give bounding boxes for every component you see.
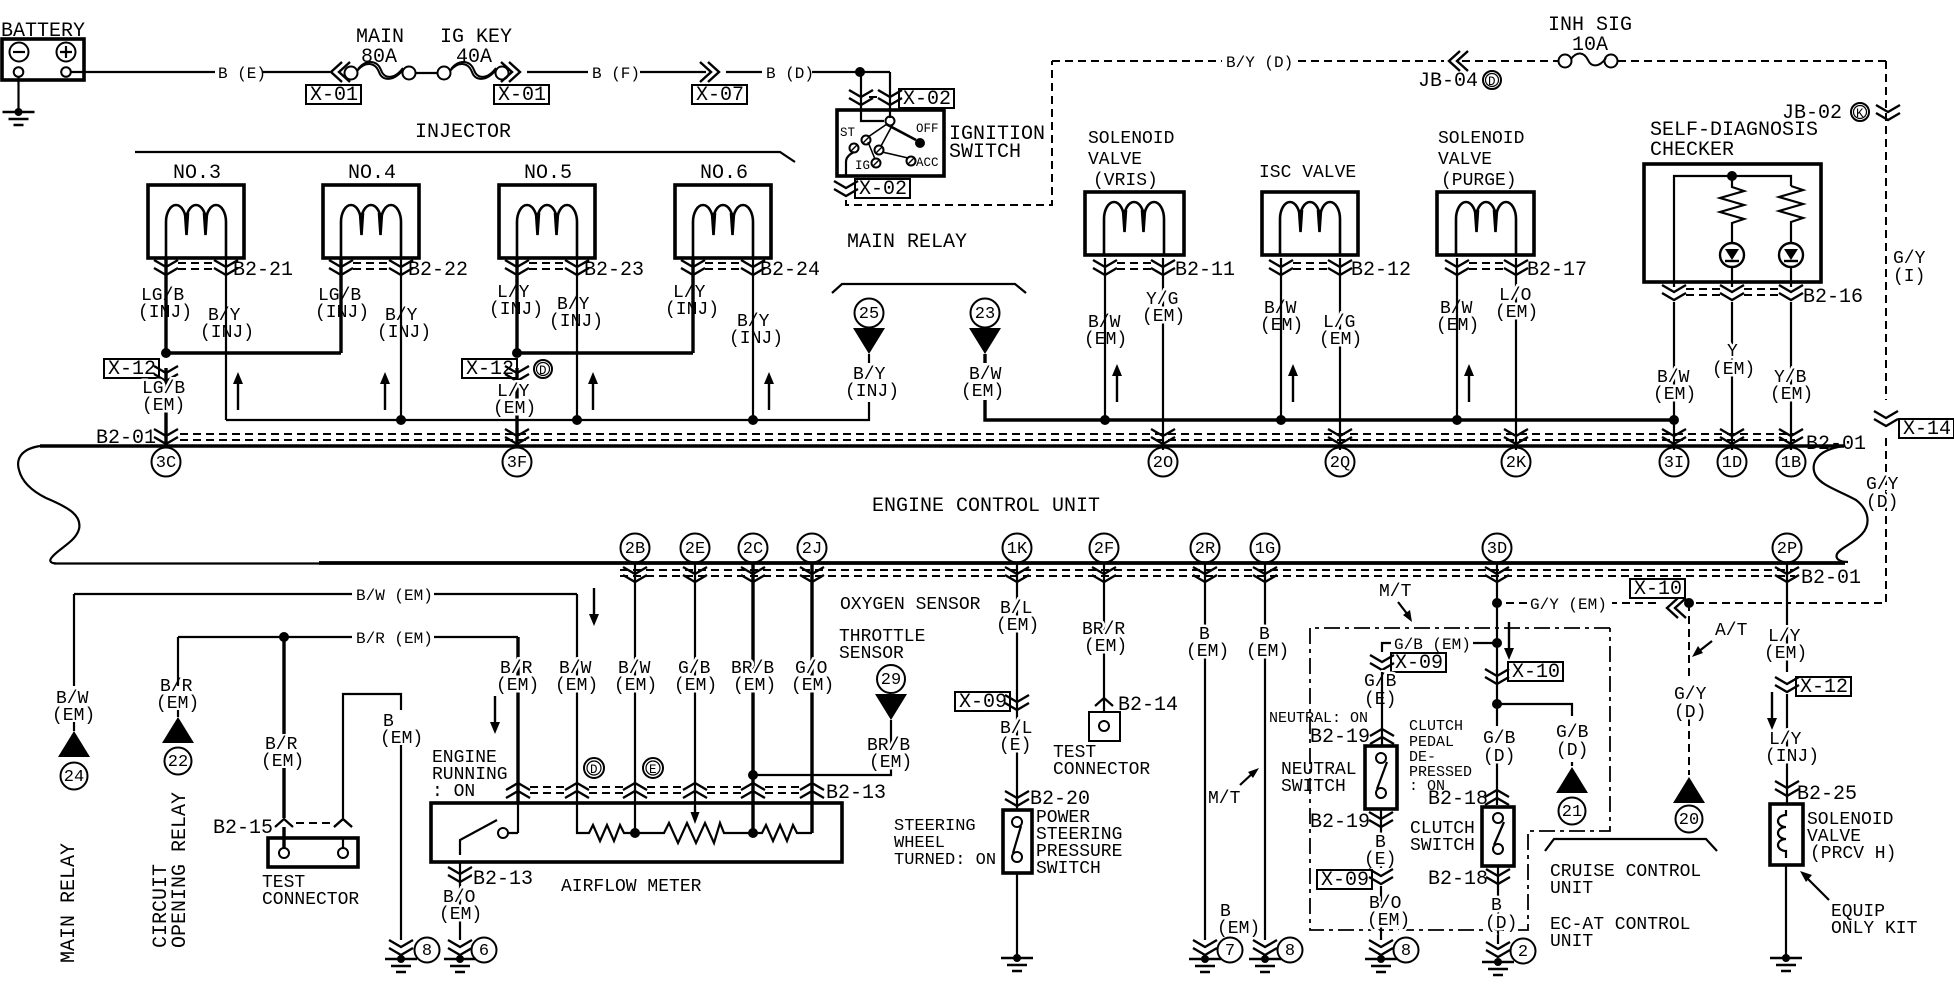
airflow resistor R1 [577,803,634,841]
airflow switch blade [460,820,497,855]
svg-text:SENSOR: SENSOR [839,644,904,664]
solenoid PRCV coil [1778,810,1786,858]
wire battery positive B(E) [71,71,330,73]
svg-text:X-12: X-12 [466,358,514,381]
svg-text:NO.4: NO.4 [348,162,396,185]
triangle to circuit opening relay 22 [162,717,194,743]
pin 3C [152,448,181,477]
ground 8 mid [1249,955,1281,972]
wire B(D) [726,71,890,73]
connector B2-11 chevrons [1093,260,1117,275]
test connector 2 box [1089,712,1120,741]
ISC coil [1280,202,1340,255]
svg-text:(EM): (EM) [1764,644,1807,664]
svg-text:B (D): B (D) [766,65,814,83]
svg-text:B2-24: B2-24 [760,259,820,282]
direction arrow down at B/R [490,696,500,734]
svg-text:22: 22 [168,753,188,772]
checker resistor R2 [1779,186,1803,243]
clutch switch blade [1494,822,1504,845]
svg-text:(EM): (EM) [1770,385,1813,405]
svg-text:(EM): (EM) [380,729,423,749]
pin 2C [739,534,768,563]
battery plus terminal symbol [57,43,76,62]
wire stub above triangle 24 [73,722,75,731]
svg-text:UNIT: UNIT [1550,879,1593,899]
connector B2-13 chevrons below [448,867,472,882]
svg-text:X-12: X-12 [1800,676,1848,699]
connector X-14 boxed label [1899,419,1954,438]
svg-text:2Q: 2Q [1330,454,1350,473]
svg-text:(EM): (EM) [996,616,1039,636]
svg-text:B (F): B (F) [592,65,640,83]
connector B2-23 chevrons [505,260,529,275]
wire LG/B NO.4 [166,258,341,353]
pin 23 circle [971,299,1000,328]
wire B/Y NO.4 [400,258,402,420]
svg-text:K: K [1856,107,1864,121]
ground chevrons B wire [389,940,413,955]
connector B2-14 chevron [1095,698,1113,706]
wire B/W checker to ECU 3I [1673,302,1675,450]
svg-text:Y: Y [1727,342,1738,362]
ground chevrons B/O [448,940,472,955]
triangle to main relay 24 [58,731,90,757]
svg-text:(INJ): (INJ) [315,303,369,323]
circled 24 [61,763,88,790]
connector X-12 chevrons mid [505,366,529,381]
connector X-09 chevrons lower [1369,869,1393,884]
svg-text:OFF: OFF [916,122,939,136]
svg-text:G/Y: G/Y [1893,249,1926,269]
wire dashed right edge down [1885,61,1887,400]
pin 23 triangle [969,328,1001,354]
wire B/Y NO.5 [576,258,578,420]
potentiometer wiper arrow [694,806,696,818]
svg-text:SWITCH: SWITCH [1281,777,1346,797]
svg-text:SWITCH: SWITCH [1410,836,1475,856]
svg-text:B/W (EM): B/W (EM) [356,587,433,605]
circled 29 oxygen sensor [877,665,905,693]
svg-text:G/B: G/B [1483,729,1516,749]
connector B2-17 chevrons [1445,260,1469,275]
wire B/O below airflow [459,862,461,940]
svg-text:X-09: X-09 [959,691,1007,714]
direction arrow up PURGE [1464,364,1474,402]
svg-text:: ON: : ON [432,782,475,802]
connector chevron on B wire [334,819,352,827]
svg-text:(EM): (EM) [791,676,834,696]
svg-text:B2-01: B2-01 [1801,567,1861,590]
wire pin25 to B/Y label [868,354,870,363]
injector NO.6 box [675,185,771,258]
connector X-09 chevrons PSP [1005,695,1029,710]
svg-text:(EM): (EM) [1260,316,1303,336]
connector X-01 chevron [331,62,350,82]
pin 2B [621,534,650,563]
wire LED1 down [1731,267,1733,287]
A/T arrow [1698,641,1712,652]
svg-text:B2-21: B2-21 [233,259,293,282]
svg-text:B/R (EM): B/R (EM) [356,630,433,648]
svg-text:2C: 2C [743,540,763,559]
circled letter K JB-02 [1851,103,1869,121]
fuse IG KEY 40A [438,62,509,80]
wire BR/B from sensor to 2C wire [753,720,891,775]
svg-text:CHECKER: CHECKER [1650,139,1734,162]
clutch switch box [1482,807,1514,866]
svg-text:(PURGE): (PURGE) [1441,171,1517,191]
connector X-02 bottom chevrons [834,181,858,196]
svg-text:(EM): (EM) [961,382,1004,402]
connector chevrons on right dashed riser [1876,105,1900,120]
wire G/B (D) branch to cruise 21 [1497,704,1572,766]
wire B/W PURGE [1456,258,1458,420]
svg-text:(EM): (EM) [142,396,185,416]
junction dot G/B (D) [1492,699,1502,709]
svg-text:G/Y: G/Y [1674,685,1707,705]
svg-text:SOLENOID: SOLENOID [1088,129,1174,149]
ground chevrons 2R [1193,940,1217,955]
svg-text:B2-12: B2-12 [1351,259,1411,282]
svg-text:23: 23 [975,305,995,324]
svg-text:B2-18: B2-18 [1428,788,1488,811]
svg-text:(EM): (EM) [493,399,536,419]
connector X-12 boxed label left [104,359,159,378]
circled 21 [1559,798,1586,825]
connector B2-12 chevrons [1269,260,1293,275]
pin 2Q [1326,448,1355,477]
svg-text:(INJ): (INJ) [845,382,899,402]
svg-text:B2-19: B2-19 [1310,811,1370,834]
connector B2-21 chevrons [154,260,178,275]
connector X-02 chevrons [849,90,873,105]
svg-text:(I): (I) [1893,267,1925,287]
clutch switch contacts [1493,813,1503,823]
svg-text:2F: 2F [1094,540,1114,559]
wire B/W 2B to airflow [634,563,636,833]
svg-text:(INJ): (INJ) [138,303,192,323]
svg-text:(EM): (EM) [496,676,539,696]
checker resistor R1 [1720,176,1744,243]
ISC valve box [1262,192,1358,255]
svg-text:(EM): (EM) [1084,637,1127,657]
pin 3F [503,448,532,477]
svg-text:A/T: A/T [1715,621,1748,641]
pin 25 circle [855,299,884,328]
svg-text:3C: 3C [156,454,176,473]
connector X-07 chevron [700,62,719,82]
connector B2-20 chevrons [1005,791,1029,806]
test connector 2 pin circle [1099,721,1109,731]
wire B/Y NO.6 [752,258,754,420]
connector B2-01 bottom chevrons [623,567,647,582]
wire L/Y NO.6 [517,258,693,353]
svg-text:2P: 2P [1777,540,1797,559]
svg-text:SOLENOID: SOLENOID [1438,129,1524,149]
connector X-02 boxed label bottom [855,179,910,198]
junction dot LG/B [161,348,171,358]
svg-text:G/B: G/B [1364,672,1397,692]
svg-text:B2-11: B2-11 [1175,259,1235,282]
svg-text:40A: 40A [456,46,492,69]
svg-text:D: D [590,763,598,777]
wire B/W ISC [1280,258,1282,420]
connector B2-22 chevrons [329,260,353,275]
power steering pressure switch box [1003,810,1032,873]
svg-text:1D: 1D [1722,454,1742,473]
triangle to 20 [1673,777,1705,803]
svg-text:B2-15: B2-15 [213,817,273,840]
connector X-01 right chevron [501,62,520,82]
ground chevrons neutral [1369,940,1393,955]
pin 25 triangle [853,328,885,354]
connector B2-16 chevrons [1662,285,1686,300]
circled 8 neutral [1394,938,1419,963]
svg-text:G/Y (EM): G/Y (EM) [1530,596,1607,614]
wire LG/B NO.3 [164,258,167,350]
svg-text:(EM): (EM) [869,753,912,773]
svg-text:24: 24 [64,768,84,787]
pin 1G [1251,534,1280,563]
svg-text:(EM): (EM) [1495,303,1538,323]
wire G/B to B2-19 [1381,672,1383,746]
svg-text:NO.3: NO.3 [173,162,221,185]
test connector pin circles [279,848,289,858]
ground 8 neutral [1365,955,1397,972]
connector B2-01 bottom dashed rows [620,570,1795,576]
connector B2-15 chevrons [275,819,352,827]
wire B/R into test connector [282,827,285,848]
direction arrow down L/Y [1767,692,1777,730]
svg-text:2R: 2R [1195,540,1215,559]
circled letter D X-12 [534,360,552,378]
svg-text:(PRCV H): (PRCV H) [1810,844,1896,864]
connector X-12 chevrons L/Y [1775,677,1799,692]
svg-text:3F: 3F [507,454,527,473]
svg-text:(INJ): (INJ) [729,329,783,349]
injector NO.6 coil [693,205,753,258]
junction dot airflow 2C [748,828,758,838]
injector NO.4 box [323,185,419,258]
direction arrow down 3D [1504,622,1514,660]
connector X-10 boxed label on 3D wire [1508,662,1563,681]
connector B2-18 chevrons lower [1486,869,1510,884]
wire B 2R to ground [1204,563,1206,940]
svg-text:VALVE: VALVE [1088,150,1142,170]
junction dot checker B/W bus [1669,415,1679,425]
triangle from sensor 29 [875,694,907,720]
svg-text:D: D [1488,75,1496,89]
cruise control bracket [1545,839,1717,851]
wire L/O PURGE to ECU 2K [1515,258,1517,450]
svg-text:ENGINE CONTROL UNIT: ENGINE CONTROL UNIT [872,495,1100,518]
junction dot G/Y at A/T branch [1684,598,1694,608]
wire dashed G/Y (D) to 20 [1688,603,1690,775]
wire G/O 2J to airflow [810,563,813,833]
svg-text:(D): (D) [1556,741,1588,761]
svg-text:VALVE: VALVE [1438,150,1492,170]
wire B (D) to ground [1497,866,1499,944]
pin 1D [1718,448,1747,477]
pin 2E [681,534,710,563]
wire G/B (EM) branch to neutral switch [1382,643,1497,652]
wire dashed B/Y (D) top run [1052,60,1886,62]
connector X-02 boxed label top [899,89,954,108]
wire L/Y (INJ) to solenoid [1786,694,1788,804]
connector X-10 boxed label on G/Y [1630,579,1685,598]
ground 6 [444,955,476,972]
pin 2J [798,534,827,563]
junction dot BR/B [748,770,758,780]
svg-text:B2-16: B2-16 [1803,286,1863,309]
wire PSP to ground [1016,873,1018,956]
connector B2-19 chevrons lower [1369,812,1393,827]
circled 6 [472,938,497,963]
svg-text:(E): (E) [1364,850,1396,870]
wire B/W (EM) horizontal run [74,593,577,595]
battery B1 box [2,39,84,80]
wire Y/G VRIS to ECU 2O [1162,258,1164,450]
pin 1K [1003,534,1032,563]
svg-text:X-09: X-09 [1395,652,1443,675]
injector NO.5 box [499,185,595,258]
direction arrow up at NO.5 [588,372,598,410]
connector B2-18 chevrons upper [1485,790,1509,805]
svg-text:(EM): (EM) [1084,330,1127,350]
svg-text:AIRFLOW METER: AIRFLOW METER [561,877,702,897]
wire 3D down [1496,563,1498,704]
svg-text:MAIN RELAY: MAIN RELAY [58,843,81,963]
ground 8 left [385,955,417,972]
svg-text:(EM): (EM) [1653,385,1696,405]
wire B/Y bus to main relay pin 25 [226,402,869,420]
wire Y checker to ECU 1D [1731,302,1733,450]
wire ST to bottom connector [846,152,854,176]
solenoid PURGE coil [1456,202,1516,255]
svg-text:(EM): (EM) [1436,316,1479,336]
connector X-01 second boxed label [494,85,549,104]
svg-text:(EM): (EM) [614,676,657,696]
svg-text:(E): (E) [999,736,1031,756]
PSP switch blade [1013,826,1021,853]
circled letter D airflow [584,758,604,778]
wire B/R down to airflow meter [516,637,519,803]
connector X-12 chevrons left [154,366,178,381]
connector B2-01 top chevrons [154,429,178,444]
ground chevrons clutch [1486,942,1510,957]
wire B/R (EM) horizontal run [178,636,518,638]
wire L/Y 2P down [1786,563,1788,672]
wire B 1G to ground [1264,563,1266,940]
connector X-10 chevrons on 3D wire [1485,669,1509,684]
svg-text:SWITCH: SWITCH [949,141,1021,164]
airflow meter box [431,803,842,862]
svg-text:X-02: X-02 [903,88,951,111]
svg-text:JB-04: JB-04 [1418,70,1478,93]
circled 2 [1511,939,1536,964]
wire BR/B 2C to airflow [751,563,754,833]
svg-text:1K: 1K [1007,540,1028,559]
svg-text:(VRIS): (VRIS) [1093,171,1158,191]
svg-text:7: 7 [1225,942,1235,961]
svg-text:2K: 2K [1506,454,1527,473]
circled 8 mid [1278,938,1303,963]
svg-text:(D): (D) [1674,703,1706,723]
svg-text:NO.5: NO.5 [524,162,572,185]
junction dot ISC B/W [1276,415,1286,425]
wire L/Y (EM) to ECU 3F [515,368,518,448]
wire BR/R 2F to test connector [1103,563,1105,712]
svg-text:2B: 2B [625,540,645,559]
connector B2-19 chevrons upper [1370,729,1394,744]
connector X-09 boxed label lower [1317,870,1372,889]
svg-text:(EM): (EM) [1319,330,1362,350]
checker LED2 [1779,243,1803,267]
wire B(F) [527,71,706,73]
neutral switch blade [1377,762,1387,789]
svg-text:X-07: X-07 [696,84,744,107]
wire LG/B (EM) to ECU 3C [164,368,167,448]
wire B (E) below neutral switch [1380,809,1382,868]
circled letter D JB-04 [1483,71,1501,89]
svg-text:B/Y (D): B/Y (D) [1226,54,1293,72]
connector X-07 boxed label [692,85,747,104]
svg-text:10A: 10A [1572,34,1608,57]
junction dot VRIS B/W [1100,415,1110,425]
svg-text:M/T: M/T [1379,582,1412,602]
circled 7 [1218,938,1243,963]
checker LED1 [1720,243,1744,267]
airflow resistor R2 potentiometer [635,823,752,843]
connector X-12 boxed label mid [462,359,517,378]
svg-text:CLUTCH: CLUTCH [1409,718,1463,735]
M/T arrow top [1398,602,1408,615]
wire G/B 2E to airflow [694,563,696,818]
svg-text:B2-18: B2-18 [1428,868,1488,891]
pin 2K [1502,448,1531,477]
svg-text:(D): (D) [1866,493,1898,513]
direction arrow up at NO.4 [380,372,390,410]
svg-text:2J: 2J [802,540,822,559]
svg-text:(EM): (EM) [1142,307,1185,327]
svg-text:3I: 3I [1664,454,1684,473]
injector NO.3 box [148,185,244,258]
svg-text:ONLY KIT: ONLY KIT [1831,919,1918,939]
pin 2R [1191,534,1220,563]
svg-text:E: E [649,763,657,777]
injector NO.4 coil [341,205,401,258]
svg-text:UNIT: UNIT [1550,932,1593,952]
svg-text:TURNED: ON: TURNED: ON [894,851,996,870]
battery post circles [14,67,24,77]
circled 8 [415,938,440,963]
svg-text:X-14: X-14 [1903,418,1951,441]
svg-text:X-10: X-10 [1634,578,1682,601]
svg-text:8: 8 [422,942,432,961]
svg-text:(INJ): (INJ) [1765,747,1819,767]
svg-text:(INJ): (INJ) [489,300,543,320]
svg-text:29: 29 [881,671,901,690]
junction dot G/Y at 3D wire [1492,598,1502,608]
wire B/W (EM) left drop to main relay arrow [73,594,75,686]
svg-text:NO.6: NO.6 [700,162,748,185]
svg-text:(E): (E) [1364,690,1396,710]
solenoid valve PURGE box [1437,192,1534,255]
direction arrow down at B/W [589,588,599,626]
junction dot checker [1727,171,1737,181]
junction dot L/Y [512,348,522,358]
